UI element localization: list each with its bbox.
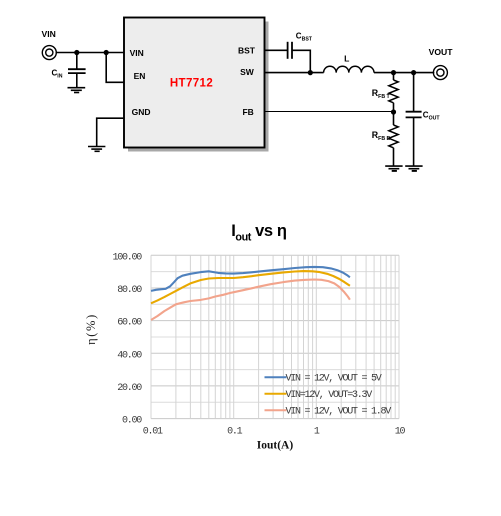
svg-text:Iout vs η: Iout vs η	[231, 222, 287, 243]
resistor RFBB	[389, 112, 398, 166]
svg-text:100.00: 100.00	[112, 252, 142, 263]
series curve VIN=12V VOUT=1.8V (salmon)	[151, 280, 350, 321]
legend sample line series 2	[265, 393, 287, 395]
svg-text:20.00: 20.00	[117, 383, 142, 394]
x axis tick labels	[143, 426, 406, 437]
wire CBST to SW node	[292, 50, 310, 72]
capacitor CBST	[288, 42, 292, 59]
svg-text:VIN: VIN	[42, 29, 56, 39]
wire FB pin to divider	[265, 111, 394, 113]
svg-text:40.00: 40.00	[117, 350, 142, 361]
resistor RFBT	[389, 73, 398, 112]
svg-text:60.00: 60.00	[117, 318, 142, 329]
svg-text:10: 10	[395, 426, 406, 437]
svg-text:RFB T: RFB T	[372, 88, 391, 100]
node junction COUT	[411, 70, 416, 75]
ground under CIN	[68, 88, 86, 93]
y axis tick labels	[112, 252, 142, 426]
ground under RFBB	[385, 166, 402, 171]
svg-text:1: 1	[314, 426, 320, 437]
node junction at CIN	[74, 50, 79, 55]
ground under COUT	[405, 166, 422, 171]
wire BST pin to CBST	[265, 49, 288, 51]
series curve VIN=12V VOUT=5V (blue)	[151, 267, 350, 291]
chart minor horizontal gridlines	[151, 272, 399, 403]
svg-text:VIN: VIN	[130, 48, 144, 58]
svg-text:HT7712: HT7712	[170, 77, 213, 89]
svg-text:VIN = 12V, VOUT = 5V: VIN = 12V, VOUT = 5V	[286, 373, 382, 384]
svg-text:EN: EN	[134, 71, 146, 81]
node junction SW	[308, 70, 313, 75]
node junction at EN branch	[104, 50, 109, 55]
svg-text:VIN=12V, VOUT=3.3V: VIN=12V, VOUT=3.3V	[286, 390, 373, 401]
svg-text:L: L	[344, 54, 349, 64]
svg-text:80.00: 80.00	[117, 285, 142, 296]
svg-text:GND: GND	[132, 107, 151, 117]
capacitor CIN	[68, 53, 86, 88]
terminal VOUT	[433, 66, 447, 80]
svg-text:SW: SW	[240, 67, 255, 77]
svg-text:0.01: 0.01	[143, 426, 163, 437]
svg-text:RFB B: RFB B	[372, 130, 391, 142]
ground under GND pin	[88, 147, 105, 152]
terminal VIN	[42, 46, 56, 60]
series curve VIN=12V VOUT=3.3V (gold)	[151, 271, 350, 303]
wire EN branch	[106, 53, 124, 83]
capacitor COUT	[406, 73, 422, 166]
svg-text:Iout(A): Iout(A)	[257, 439, 294, 451]
svg-text:VIN = 12V, VOUT = 1.8V: VIN = 12V, VOUT = 1.8V	[286, 406, 392, 417]
op-amp U1 HT7712 IC body with shadow	[124, 18, 269, 152]
legend sample line series 3	[265, 409, 287, 411]
svg-text:CBST: CBST	[296, 32, 313, 43]
wire L to VOUT terminal	[374, 72, 434, 74]
legend sample line series 1	[265, 376, 287, 378]
svg-text:0.1: 0.1	[227, 426, 243, 437]
svg-text:VOUT: VOUT	[429, 47, 454, 57]
chart vertical log gridlines	[151, 255, 399, 418]
svg-text:FB: FB	[242, 107, 253, 117]
svg-text:η(%): η(%)	[84, 313, 98, 345]
svg-text:BST: BST	[238, 46, 256, 56]
wire SW pin	[265, 72, 324, 74]
svg-text:COUT: COUT	[423, 111, 441, 122]
wire VIN terminal to IC VIN pin	[56, 52, 124, 54]
wire GND pin to ground	[97, 118, 124, 146]
svg-text:0.00: 0.00	[122, 416, 142, 427]
node junction RFBT	[391, 70, 396, 75]
svg-text:CIN: CIN	[52, 69, 63, 80]
chart major horizontal gridlines	[151, 255, 399, 418]
inductor L	[324, 66, 374, 72]
node junction FB	[391, 109, 396, 114]
